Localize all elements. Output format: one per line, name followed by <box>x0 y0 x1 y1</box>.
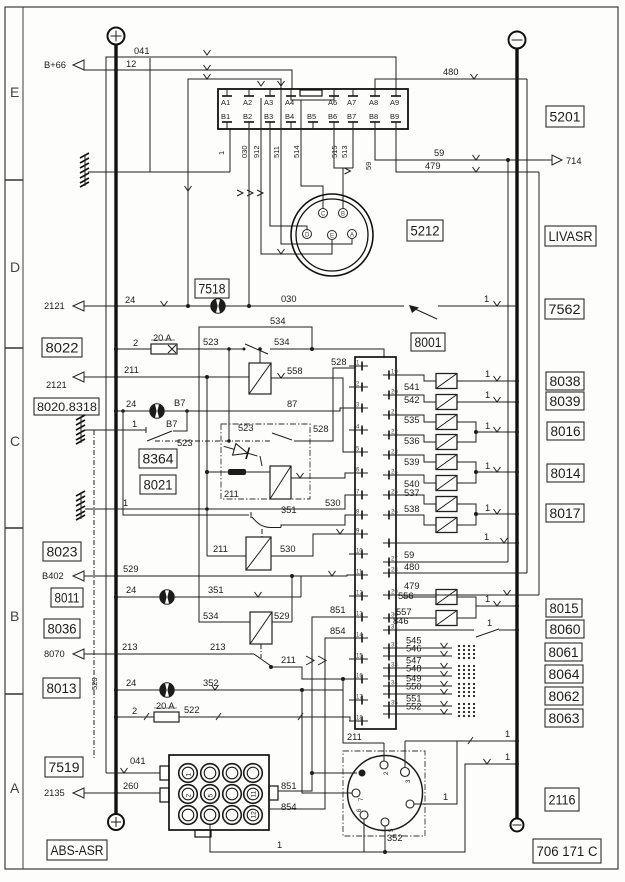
svg-text:552: 552 <box>406 702 422 712</box>
12pin connector pin c2r1 <box>201 764 220 783</box>
svg-text:851: 851 <box>281 781 297 791</box>
wire 352 row <box>114 678 302 692</box>
svg-text:041: 041 <box>130 756 146 766</box>
svg-text:A6: A6 <box>328 98 337 107</box>
svg-text:8062: 8062 <box>549 689 580 704</box>
connector pin A4/B4 <box>285 89 296 129</box>
svg-text:515: 515 <box>330 145 339 158</box>
connector pin A6/B6 <box>328 89 339 129</box>
wheel sensor coil 542 <box>403 395 457 410</box>
svg-text:714: 714 <box>566 156 582 166</box>
svg-text:8070: 8070 <box>44 649 65 659</box>
label box 8023 <box>43 542 81 561</box>
chassis ground C2 <box>76 491 85 520</box>
svg-text:1: 1 <box>485 390 490 400</box>
svg-text:8022: 8022 <box>46 340 79 355</box>
wire 260 row <box>84 781 160 795</box>
wire 523 to switch <box>177 337 245 443</box>
svg-text:537: 537 <box>404 488 420 498</box>
wire 912 from B-row to round pin E <box>252 98 332 254</box>
wire 211 bottom <box>343 679 384 743</box>
ECU right pin 26515 <box>383 510 403 520</box>
connector 18-pin box <box>218 89 408 129</box>
12pin connector pin c2r3 <box>201 806 220 825</box>
svg-text:B3: B3 <box>264 112 273 121</box>
wire 1 ECU pin to bus y543 <box>403 532 519 545</box>
ECU right pin 32648 <box>383 643 403 653</box>
relay K3 <box>207 537 271 570</box>
svg-text:A: A <box>350 233 354 239</box>
switch 534 <box>243 337 290 354</box>
svg-text:7562: 7562 <box>549 302 581 317</box>
svg-text:523: 523 <box>177 438 193 448</box>
arrow B402 <box>42 571 84 581</box>
wire 528 to ECU pin1 <box>294 357 355 441</box>
svg-text:854: 854 <box>330 626 346 636</box>
label box 8021 <box>140 475 176 494</box>
svg-text:A1: A1 <box>221 98 230 107</box>
svg-text:912: 912 <box>252 145 261 158</box>
switch 351 feed <box>123 411 249 515</box>
round pin 1 filled <box>359 770 366 777</box>
bottom round connector dash-dot box <box>343 751 425 836</box>
wire stub 549 <box>403 674 475 690</box>
svg-text:8038: 8038 <box>550 374 581 389</box>
svg-text:12: 12 <box>356 591 363 597</box>
connector pin A5/B5 <box>307 112 318 129</box>
ECU right pin 23455 <box>383 450 403 460</box>
svg-text:B9: B9 <box>390 112 399 121</box>
svg-text:8017: 8017 <box>550 506 581 521</box>
label box 8036 <box>44 619 80 638</box>
ECU left pin 6 <box>349 468 368 478</box>
12pin connector pin c2r2 <box>201 785 220 804</box>
wire stub 545 <box>403 636 475 652</box>
ECU left pin 10 <box>349 549 368 559</box>
svg-text:33: 33 <box>391 663 398 669</box>
label box 8011 <box>51 588 83 607</box>
svg-text:8021: 8021 <box>144 477 173 492</box>
svg-text:5212: 5212 <box>411 223 440 238</box>
svg-text:1: 1 <box>487 618 492 628</box>
ECU right pin 34686 <box>383 681 403 691</box>
svg-text:352: 352 <box>387 833 403 843</box>
ECU right pin 30618 <box>383 613 403 623</box>
svg-text:534: 534 <box>203 611 219 621</box>
svg-text:211: 211 <box>224 489 239 499</box>
connector pin A2/B2 <box>243 89 254 129</box>
svg-text:21: 21 <box>391 410 398 416</box>
dashed relay module box <box>221 424 310 499</box>
round pin 5 <box>381 818 403 854</box>
label box 8038 <box>546 372 584 390</box>
svg-text:7519: 7519 <box>49 760 80 775</box>
svg-text:27: 27 <box>391 557 398 563</box>
svg-text:542: 542 <box>404 395 420 405</box>
svg-text:1: 1 <box>484 294 489 304</box>
svg-text:1: 1 <box>443 792 448 802</box>
svg-text:1: 1 <box>132 419 137 429</box>
sensor return wire 542 <box>457 390 519 404</box>
svg-text:16: 16 <box>356 674 363 680</box>
wire 030 row D to bus <box>84 294 404 308</box>
svg-text:535: 535 <box>404 415 420 425</box>
svg-text:541: 541 <box>404 382 420 392</box>
svg-text:8064: 8064 <box>549 667 580 682</box>
wire drop x150 <box>149 58 151 172</box>
wire stub 552 <box>403 702 475 718</box>
svg-text:5: 5 <box>389 828 395 832</box>
fuse 20A (A) <box>114 701 179 722</box>
wire bridge A4-A6 <box>291 96 334 129</box>
svg-text:B4: B4 <box>285 112 294 121</box>
12-pin connector block <box>160 755 278 837</box>
svg-text:19: 19 <box>391 370 398 376</box>
svg-text:12: 12 <box>251 811 258 819</box>
svg-text:1: 1 <box>217 151 226 155</box>
arrow B+66 <box>44 60 84 70</box>
ECU left pin 4 <box>349 425 368 435</box>
svg-text:1: 1 <box>484 532 489 542</box>
ECU right pin 29595 <box>383 590 403 600</box>
svg-text:534: 534 <box>274 337 290 347</box>
label box 8020.8318 <box>34 398 99 415</box>
wire 213 row <box>84 642 254 654</box>
connector point on 87 row <box>150 404 164 418</box>
round pin 7 <box>344 789 365 801</box>
round pin A <box>348 230 357 239</box>
svg-text:B6: B6 <box>328 112 337 121</box>
svg-text:8061: 8061 <box>549 645 579 660</box>
wire 513 to round pin B <box>334 129 353 208</box>
svg-text:539: 539 <box>404 457 420 467</box>
ECU left pin 16 <box>349 674 368 684</box>
svg-text:C: C <box>10 433 20 449</box>
svg-text:B8: B8 <box>369 112 378 121</box>
svg-text:59: 59 <box>434 148 444 158</box>
svg-text:2: 2 <box>186 794 193 798</box>
svg-text:11: 11 <box>251 790 258 797</box>
svg-text:20 A: 20 A <box>153 333 172 343</box>
X mark on 523 wire <box>168 345 176 353</box>
ECU right pin 35706 <box>383 701 403 711</box>
svg-text:1: 1 <box>485 421 490 431</box>
svg-text:15: 15 <box>356 654 363 660</box>
svg-text:26: 26 <box>391 510 398 516</box>
connector pin A7/B7 <box>347 89 358 129</box>
wire 514 to round pin C <box>292 129 323 208</box>
connector point on 351 row <box>160 590 174 604</box>
svg-text:1: 1 <box>485 369 490 379</box>
wire 351 row B <box>114 576 301 599</box>
wire 511 to round pin A <box>272 89 352 244</box>
ECU left pin 12 <box>349 591 368 601</box>
svg-text:34: 34 <box>391 681 398 687</box>
sensor 556/557 return wire <box>457 594 519 618</box>
svg-text:B5: B5 <box>307 112 316 121</box>
diode <box>222 441 262 466</box>
svg-text:8013: 8013 <box>47 681 77 696</box>
label box 8060 <box>546 620 584 638</box>
ECU right pin x543 <box>383 539 403 548</box>
svg-text:2121: 2121 <box>46 380 67 390</box>
svg-text:213: 213 <box>122 642 138 652</box>
resistor element <box>205 469 270 475</box>
svg-text:8023: 8023 <box>47 544 78 559</box>
svg-text:A7: A7 <box>347 98 356 107</box>
wire 846 with switch <box>393 616 519 637</box>
wire 479 top <box>396 129 539 172</box>
connector point on 352 row <box>160 683 174 697</box>
label box LIVASR <box>545 226 596 246</box>
ECU left pin 3 <box>349 403 368 413</box>
svg-text:2: 2 <box>133 338 138 348</box>
ECU right pin 28573 <box>383 568 403 578</box>
sensor 557 <box>396 607 457 626</box>
svg-text:854: 854 <box>281 802 297 812</box>
svg-text:2: 2 <box>132 706 137 716</box>
wire 851 <box>278 605 357 791</box>
battery plus terminal bottom <box>108 814 124 830</box>
svg-text:030: 030 <box>281 294 297 304</box>
ECU right pin 27562 <box>383 557 403 567</box>
svg-text:B7: B7 <box>347 112 356 121</box>
svg-text:B7: B7 <box>174 398 185 408</box>
label box 8015 <box>546 599 582 617</box>
svg-text:8036: 8036 <box>48 621 77 636</box>
svg-text:480: 480 <box>404 562 420 572</box>
svg-text:030: 030 <box>240 145 249 158</box>
svg-text:211: 211 <box>213 544 228 554</box>
svg-text:A: A <box>10 780 20 796</box>
arrow out 714 <box>552 155 582 166</box>
svg-text:846: 846 <box>393 616 409 626</box>
round pin C <box>319 209 328 218</box>
bottom round connector circle <box>348 756 423 831</box>
svg-text:24: 24 <box>125 295 135 305</box>
relay K1 <box>249 347 271 394</box>
wheel sensor coil 540 <box>403 475 457 491</box>
label box 706 171 C <box>533 839 601 863</box>
svg-text:2135: 2135 <box>44 788 65 798</box>
svg-text:B2: B2 <box>243 112 252 121</box>
svg-text:528: 528 <box>313 424 329 434</box>
wire stub 546 <box>403 644 475 660</box>
svg-text:59: 59 <box>364 162 373 170</box>
svg-text:B+66: B+66 <box>44 60 66 70</box>
sensor pair return wire y543 <box>457 503 519 525</box>
svg-text:1: 1 <box>485 594 490 604</box>
label box 8016 <box>547 422 584 440</box>
switch 213/211 <box>254 654 355 681</box>
svg-text:548: 548 <box>406 664 422 674</box>
wheel sensor coil 537 <box>403 488 457 512</box>
sensor return wire 541 <box>457 369 519 383</box>
svg-text:3: 3 <box>406 779 412 783</box>
wheel sensor coil 535 <box>403 415 457 430</box>
svg-text:24: 24 <box>126 678 136 688</box>
svg-text:1: 1 <box>123 498 128 508</box>
svg-text:24: 24 <box>391 470 398 476</box>
label box 2416 <box>545 788 579 811</box>
12pin connector pin c4r2 <box>244 785 263 804</box>
label box 8014 <box>547 464 584 482</box>
svg-text:480: 480 <box>443 67 459 77</box>
svg-text:87: 87 <box>287 399 297 409</box>
wire 529 row to ECU pin9 <box>84 564 355 578</box>
svg-text:D: D <box>10 259 20 275</box>
svg-text:523: 523 <box>238 423 254 433</box>
svg-text:511: 511 <box>272 146 281 158</box>
chassis ground C1 <box>76 415 85 444</box>
12pin connector pin c1r1 <box>179 764 198 783</box>
svg-text:351: 351 <box>281 505 297 515</box>
svg-text:523: 523 <box>90 677 99 690</box>
label box 8017 <box>546 504 584 522</box>
svg-text:514: 514 <box>292 145 301 158</box>
wheel sensor coil 538 <box>403 504 457 533</box>
round pin 4 <box>406 741 457 808</box>
ECU connector 8001 <box>355 357 396 729</box>
wire relay K2 out to ECU pin5 <box>291 473 355 478</box>
svg-text:213: 213 <box>210 642 226 652</box>
svg-text:534: 534 <box>270 316 286 326</box>
switch 523 inside box <box>238 423 292 440</box>
svg-text:2116: 2116 <box>549 792 576 807</box>
wire 12 branch down to fuse region <box>185 74 285 306</box>
label box 8061 <box>545 643 582 661</box>
svg-text:530: 530 <box>325 498 341 508</box>
svg-text:D: D <box>305 233 310 239</box>
ECU left pin 18 <box>349 716 368 726</box>
wire 522 to ECU pin14 <box>179 705 355 721</box>
arrow 2121 (D) <box>44 301 84 311</box>
svg-text:558: 558 <box>287 366 303 376</box>
svg-text:351: 351 <box>208 585 224 595</box>
ECU left pin 5 <box>349 447 368 457</box>
wire 523 dashed to box <box>155 438 270 448</box>
svg-text:11: 11 <box>356 570 363 576</box>
wire stub 548 <box>403 664 475 680</box>
svg-text:211: 211 <box>281 655 296 665</box>
svg-text:28: 28 <box>391 568 398 574</box>
sensor pair return wire y472 <box>457 461 519 483</box>
connector pin A8/B8 <box>369 89 380 129</box>
svg-text:352: 352 <box>203 678 219 688</box>
svg-text:513: 513 <box>340 145 349 158</box>
svg-text:A8: A8 <box>369 98 378 107</box>
fuse 20A (C) <box>114 333 177 354</box>
sensor pair return wire y432 <box>457 421 519 442</box>
ECU left pin 17 <box>349 695 368 705</box>
wire 211 row to relay <box>84 365 249 379</box>
ECU right pin x656 <box>383 652 403 661</box>
switch B7/523 <box>85 409 189 441</box>
wire 1 (E row ground) <box>88 129 230 172</box>
svg-text:14: 14 <box>356 633 363 639</box>
12pin connector pin c4r3 <box>244 806 263 825</box>
svg-text:1: 1 <box>186 773 193 777</box>
connector point 7518 <box>195 279 229 313</box>
svg-text:8011: 8011 <box>55 590 80 605</box>
wire 59 to ECU pin27 <box>403 160 508 562</box>
ground minus bus (right) <box>509 32 526 819</box>
svg-text:851: 851 <box>330 605 346 615</box>
wire stub 550 <box>403 682 475 698</box>
svg-text:1: 1 <box>505 729 510 739</box>
12pin connector pin c3r3 <box>223 806 242 825</box>
relay K2 <box>224 466 291 499</box>
ECU right pin 20395 <box>383 390 403 400</box>
wire 351 to ECU pin7 <box>281 515 355 528</box>
ECU left pin 15 <box>349 654 368 664</box>
ECU left pin 13 <box>349 612 368 622</box>
battery plus bus (left) <box>108 28 125 815</box>
svg-text:B7: B7 <box>166 419 177 429</box>
arrow 2135 <box>44 788 84 798</box>
svg-text:18: 18 <box>356 716 363 722</box>
label box 5212 <box>407 220 443 241</box>
svg-text:B: B <box>341 212 345 218</box>
12pin connector pin c1r2 <box>179 785 198 804</box>
svg-text:211: 211 <box>347 732 362 742</box>
ECU left pin 9 <box>349 529 368 539</box>
wire 1/530 ground row to ECU pin6 <box>85 495 355 511</box>
label box 8063 <box>545 709 583 727</box>
svg-text:59: 59 <box>404 550 414 560</box>
ECU right pin 25495 <box>383 490 403 500</box>
svg-text:8015: 8015 <box>550 601 579 616</box>
svg-text:E: E <box>10 84 19 100</box>
12pin connector pin c3r2 <box>223 785 242 804</box>
wire 558 to ECU pin2 <box>271 366 355 452</box>
ECU left pin 14 <box>349 633 368 643</box>
svg-text:8020.8318: 8020.8318 <box>37 400 97 414</box>
svg-text:35: 35 <box>391 701 398 707</box>
label box 5201 <box>546 106 584 127</box>
wire 030 vertical from B2 <box>237 129 263 306</box>
round pin 3 <box>401 741 413 783</box>
svg-text:546: 546 <box>406 644 422 654</box>
label box 8062 <box>545 687 583 705</box>
chassis ground E <box>80 153 89 187</box>
svg-text:479: 479 <box>425 161 441 171</box>
switch 351 <box>251 505 297 528</box>
svg-text:22: 22 <box>391 430 398 436</box>
svg-text:20: 20 <box>391 390 398 396</box>
svg-text:538: 538 <box>404 504 420 514</box>
ECU left pin 1 <box>349 361 368 371</box>
wheel sensor coil 539 <box>403 455 457 470</box>
label box 8013 <box>43 678 80 698</box>
svg-text:1: 1 <box>505 752 510 762</box>
wire 523 dashed vertical <box>90 430 99 760</box>
svg-text:E: E <box>330 234 334 240</box>
svg-text:8060: 8060 <box>550 622 581 637</box>
svg-text:523: 523 <box>203 337 219 347</box>
ECU left pin 11 <box>349 570 368 580</box>
wire 041 <box>106 46 396 773</box>
wire 530 to ECU pin8 <box>271 529 355 556</box>
svg-text:A2: A2 <box>243 98 252 107</box>
wire 480 to ECU pin28 <box>403 79 527 573</box>
connector pin A3/B3 <box>264 89 275 129</box>
wire 041 into 12pin connector <box>106 756 160 773</box>
round pin E <box>328 231 337 240</box>
label box ABS-ASR <box>47 840 107 860</box>
switch on 030 row <box>409 294 517 319</box>
svg-text:2121: 2121 <box>44 301 65 311</box>
